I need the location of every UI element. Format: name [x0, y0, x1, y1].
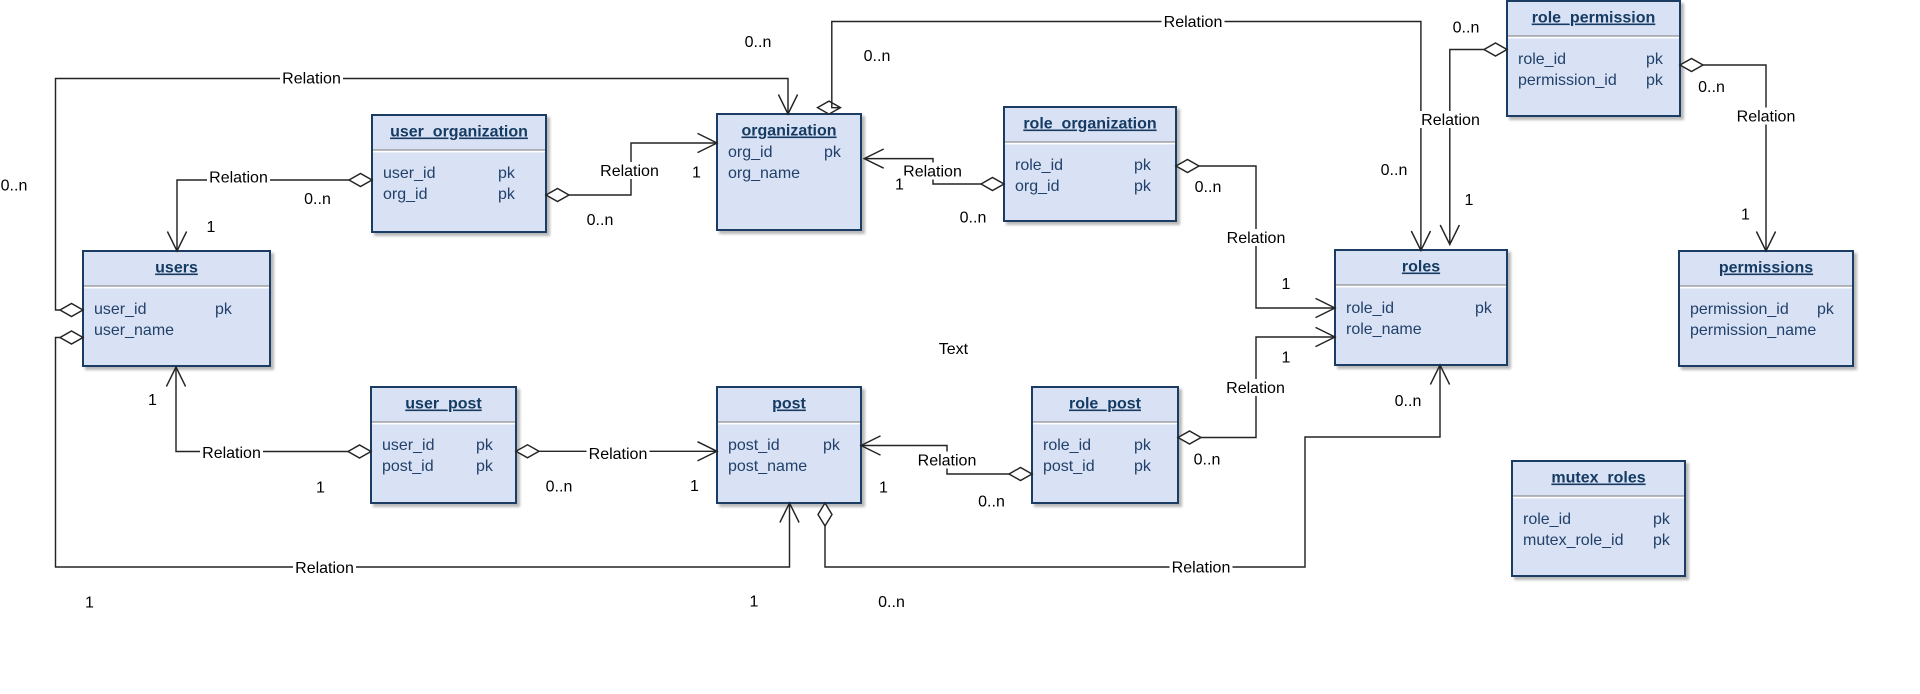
svg-text:pk: pk — [1475, 300, 1493, 317]
svg-text:1: 1 — [692, 165, 701, 182]
entity role_post — [1032, 387, 1178, 503]
entity user_organization — [372, 115, 546, 232]
cardinality 1 on role_permission-permissions — [1739, 206, 1752, 224]
relation user_organization-users — [167, 174, 372, 252]
cardinality 1 on users-post — [748, 593, 761, 611]
svg-text:pk: pk — [1134, 458, 1152, 475]
cardinality 1 on post-role_post — [877, 479, 890, 497]
entity users — [83, 251, 270, 366]
relation post-roles — [818, 365, 1450, 567]
relation user_organization-organization — [546, 133, 717, 201]
cardinality 0..n on role_post-roles — [1192, 451, 1223, 469]
svg-text:org_name: org_name — [728, 165, 800, 182]
svg-text:user_id: user_id — [382, 437, 434, 454]
svg-text:Relation: Relation — [295, 560, 354, 577]
svg-text:role_id: role_id — [1346, 300, 1394, 317]
svg-text:post_id: post_id — [1043, 458, 1095, 475]
label Relation on users-user_post — [200, 444, 263, 462]
svg-text:roles: roles — [1402, 259, 1440, 276]
svg-text:0..n: 0..n — [960, 210, 987, 227]
svg-text:0..n: 0..n — [1194, 452, 1221, 469]
svg-text:users: users — [155, 260, 198, 277]
cardinality 0..n on user_post-post — [544, 478, 575, 496]
svg-text:Relation: Relation — [903, 164, 962, 181]
svg-text:0..n: 0..n — [1, 178, 28, 195]
svg-text:pk: pk — [498, 165, 516, 182]
entity user_post — [371, 387, 516, 503]
svg-text:post_id: post_id — [382, 458, 434, 475]
entity post — [717, 387, 861, 503]
svg-text:1: 1 — [1282, 276, 1291, 293]
svg-text:0..n: 0..n — [1381, 162, 1408, 179]
relation users-post — [56, 331, 800, 567]
cardinality 0..n on users-organization — [743, 33, 774, 51]
svg-text:Relation: Relation — [1227, 230, 1286, 247]
svg-text:1: 1 — [148, 392, 157, 409]
svg-text:0..n: 0..n — [878, 594, 905, 611]
cardinality 0..n on organization-roles — [1379, 161, 1410, 179]
svg-text:pk: pk — [215, 301, 233, 318]
label Relation on role_post-roles — [1224, 379, 1287, 397]
svg-text:permissions: permissions — [1719, 260, 1813, 277]
svg-text:pk: pk — [498, 186, 516, 203]
svg-text:0..n: 0..n — [978, 494, 1005, 511]
svg-text:permission_id: permission_id — [1690, 301, 1789, 318]
svg-text:Relation: Relation — [202, 445, 261, 462]
cardinality 0..n on users-organization — [0, 177, 30, 195]
svg-text:organization: organization — [741, 123, 836, 140]
relation post-role_post — [861, 436, 1032, 481]
svg-text:user_organization: user_organization — [390, 124, 528, 141]
cardinality 1 on role_permission-roles — [1463, 191, 1476, 209]
svg-text:0..n: 0..n — [1395, 393, 1422, 410]
svg-text:permission_name: permission_name — [1690, 322, 1816, 339]
label Relation on role_organization-organization — [901, 163, 964, 181]
cardinality 1 on user_post-post — [688, 477, 701, 495]
cardinality 0..n on role_organization-organization — [958, 209, 989, 227]
relation users-user_post — [166, 367, 371, 458]
cardinality 1 on users-user_post — [146, 391, 159, 409]
cardinality 1 on user_organization-organization — [690, 164, 703, 182]
cardinality 0..n on post-roles — [1393, 392, 1424, 410]
svg-text:role_organization: role_organization — [1023, 116, 1156, 133]
svg-text:pk: pk — [1134, 157, 1152, 174]
svg-text:role_post: role_post — [1069, 396, 1142, 413]
svg-text:pk: pk — [823, 437, 841, 454]
svg-text:1: 1 — [1282, 350, 1291, 367]
entity roles — [1335, 250, 1507, 365]
cardinality 0..n on user_organization-users — [302, 190, 333, 208]
entity organization — [717, 114, 861, 230]
svg-text:user_id: user_id — [94, 301, 146, 318]
svg-text:0..n: 0..n — [1698, 79, 1725, 96]
text label Text — [939, 341, 969, 358]
label Relation on user_organization-users — [207, 169, 270, 187]
svg-text:0..n: 0..n — [546, 479, 573, 496]
relation role_organization-organization — [864, 149, 1004, 191]
svg-text:1: 1 — [895, 177, 904, 194]
svg-text:org_id: org_id — [1015, 178, 1059, 195]
label Relation on role_organization-roles — [1225, 229, 1288, 247]
svg-text:0..n: 0..n — [1453, 20, 1480, 37]
svg-text:1: 1 — [1465, 192, 1474, 209]
svg-text:pk: pk — [1134, 437, 1152, 454]
svg-text:1: 1 — [750, 594, 759, 611]
svg-text:role_name: role_name — [1346, 321, 1422, 338]
svg-text:Relation: Relation — [1172, 560, 1231, 577]
label Relation on role_permission-permissions — [1735, 108, 1798, 126]
svg-text:role_id: role_id — [1518, 51, 1566, 68]
cardinality 1 on role_organization-roles — [1280, 275, 1293, 293]
svg-text:user_name: user_name — [94, 322, 174, 339]
label Relation on user_organization-organization — [598, 162, 661, 180]
svg-text:pk: pk — [1646, 72, 1664, 89]
svg-text:mutex_role_id: mutex_role_id — [1523, 532, 1624, 549]
svg-text:pk: pk — [1646, 51, 1664, 68]
svg-text:0..n: 0..n — [304, 191, 331, 208]
label Relation on users-organization — [280, 70, 343, 88]
label Relation on role_permission-roles — [1419, 111, 1482, 129]
svg-text:Relation: Relation — [1421, 112, 1480, 129]
cardinality 0..n on post-roles — [876, 593, 907, 611]
svg-text:pk: pk — [476, 437, 494, 454]
svg-text:Relation: Relation — [209, 170, 268, 187]
svg-text:1: 1 — [85, 595, 94, 612]
svg-text:post_name: post_name — [728, 458, 807, 475]
cardinality 0..n on role_permission-permissions — [1696, 78, 1727, 96]
svg-text:1: 1 — [879, 480, 888, 497]
svg-text:org_id: org_id — [728, 144, 772, 161]
relation role_post-roles — [1178, 327, 1335, 444]
svg-text:Relation: Relation — [918, 453, 977, 470]
entity mutex_roles — [1512, 461, 1685, 576]
label Relation on post-role_post — [916, 452, 979, 470]
relation organization-roles — [818, 22, 1431, 251]
svg-text:pk: pk — [476, 458, 494, 475]
cardinality 1 on users-user_post — [314, 479, 327, 497]
svg-text:Relation: Relation — [282, 71, 341, 88]
relation role_organization-roles — [1176, 160, 1335, 318]
cardinality 0..n on organization-roles — [862, 47, 893, 65]
svg-text:role_permission: role_permission — [1532, 10, 1656, 27]
svg-text:pk: pk — [824, 144, 842, 161]
entity role_organization — [1004, 107, 1176, 221]
svg-text:Relation: Relation — [1226, 380, 1285, 397]
cardinality 0..n on post-role_post — [976, 493, 1007, 511]
entity permissions — [1679, 251, 1853, 366]
label Relation on user_post-post — [587, 445, 650, 463]
svg-text:role_id: role_id — [1015, 157, 1063, 174]
svg-text:permission_id: permission_id — [1518, 72, 1617, 89]
relation role_permission-roles — [1440, 43, 1507, 245]
svg-text:post_id: post_id — [728, 437, 780, 454]
svg-text:post: post — [772, 396, 806, 413]
svg-text:Relation: Relation — [600, 163, 659, 180]
svg-text:role_id: role_id — [1523, 511, 1571, 528]
svg-text:Relation: Relation — [589, 446, 648, 463]
svg-text:0..n: 0..n — [587, 212, 614, 229]
svg-text:1: 1 — [316, 480, 325, 497]
svg-text:mutex_roles: mutex_roles — [1551, 470, 1645, 487]
label Relation on organization-roles — [1162, 13, 1225, 31]
svg-text:pk: pk — [1817, 301, 1835, 318]
cardinality 1 on user_organization-users — [205, 218, 218, 236]
cardinality 1 on role_organization-organization — [893, 176, 906, 194]
svg-text:pk: pk — [1653, 532, 1671, 549]
entity role_permission — [1507, 1, 1680, 116]
svg-text:Relation: Relation — [1164, 14, 1223, 31]
relation user_post-post — [516, 442, 717, 461]
cardinality 1 on role_post-roles — [1280, 349, 1293, 367]
svg-text:user_id: user_id — [383, 165, 435, 182]
svg-text:org_id: org_id — [383, 186, 427, 203]
relation users-organization — [56, 79, 798, 317]
cardinality 1 on users-post — [83, 594, 96, 612]
relation role_permission-permissions — [1680, 59, 1776, 252]
cardinality 0..n on role_organization-roles — [1193, 178, 1224, 196]
cardinality 0..n on user_organization-organization — [585, 211, 616, 229]
cardinality 0..n on role_permission-roles — [1451, 19, 1482, 37]
label Relation on users-post — [293, 559, 356, 577]
svg-text:1: 1 — [1741, 207, 1750, 224]
svg-text:1: 1 — [690, 478, 699, 495]
svg-text:pk: pk — [1653, 511, 1671, 528]
svg-text:0..n: 0..n — [864, 48, 891, 65]
label Relation on post-roles — [1170, 559, 1233, 577]
svg-text:Text: Text — [939, 341, 969, 358]
svg-text:Relation: Relation — [1737, 109, 1796, 126]
svg-text:role_id: role_id — [1043, 437, 1091, 454]
svg-text:0..n: 0..n — [745, 34, 772, 51]
svg-text:0..n: 0..n — [1195, 179, 1222, 196]
svg-text:user_post: user_post — [405, 396, 482, 413]
svg-text:1: 1 — [207, 219, 216, 236]
svg-text:pk: pk — [1134, 178, 1152, 195]
